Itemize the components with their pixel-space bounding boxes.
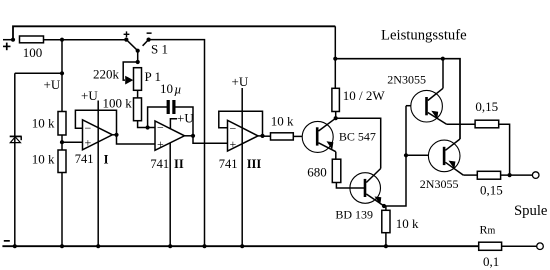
transistor Q1 BC547: [302, 118, 336, 152]
wire zener vertical: [14, 73, 16, 246]
svg-text:10 k: 10 k: [271, 114, 294, 129]
node +U top: [60, 38, 64, 42]
resistor 10k lower: [58, 150, 66, 173]
resistor 0,15 upper: [475, 120, 499, 128]
wire between divider: [61, 135, 63, 150]
minus terminal: [4, 240, 10, 242]
wire to Q4 base: [406, 154, 428, 156]
resistor 0,15 lower: [477, 171, 500, 179]
op-amp U1 feedback wire: [75, 110, 116, 135]
wire Q4 emitter to 0,15: [463, 174, 477, 176]
svg-text:+U: +U: [177, 110, 194, 125]
svg-text:680: 680: [307, 165, 327, 180]
svg-text:−: −: [230, 121, 237, 135]
wire 680 to BD139 base: [336, 183, 364, 189]
op-amp U3 feedback wire: [219, 111, 263, 136]
svg-text:10 / 2W: 10 / 2W: [343, 88, 386, 103]
svg-text:+: +: [230, 137, 237, 151]
svg-text:S 1: S 1: [151, 42, 168, 57]
op-amp U1 (741 I): [83, 120, 113, 150]
svg-text:10 k: 10 k: [32, 116, 55, 131]
svg-text:+: +: [85, 136, 92, 150]
resistor 100: [20, 36, 44, 43]
node rail zener: [13, 244, 17, 248]
wire riser down: [61, 40, 63, 112]
wire riser to top rail: [13, 26, 335, 39]
terminal Spule bottom: [537, 243, 544, 250]
switch S1: [124, 31, 168, 62]
wire Q3 collector to rail: [442, 59, 444, 89]
node op-amp I output: [112, 134, 116, 136]
node rail 10k: [60, 244, 64, 248]
svg-text:741: 741: [150, 157, 169, 171]
wire opI out to opII +: [117, 135, 156, 144]
node op-amp III output: [258, 135, 263, 137]
wire op-amp I supply: [97, 101, 99, 247]
node Q3 base branch: [404, 153, 408, 157]
node rail op II: [168, 244, 172, 248]
zener diode: [10, 136, 22, 142]
node rail S1: [202, 244, 206, 248]
wire 100 to S1: [44, 39, 127, 41]
svg-text:220k: 220k: [93, 66, 120, 81]
resistor 10/2W: [332, 88, 340, 111]
wire to output node: [501, 174, 533, 176]
wire cap left: [148, 107, 167, 128]
transistor Q2 BD139: [350, 169, 384, 207]
node supply split: [333, 57, 337, 61]
wire op-amp III supply: [241, 88, 243, 246]
transistor Q4 2N3055 lower: [428, 139, 463, 175]
wiper arrow P1: [125, 76, 133, 85]
node S1 common: [136, 60, 140, 64]
capacitor C1 10u: [167, 100, 176, 114]
resistor Rm 0,1: [479, 242, 502, 250]
wire to 10k: [263, 135, 271, 137]
svg-text:+U: +U: [232, 74, 249, 89]
svg-text:BC 547: BC 547: [339, 130, 376, 144]
node divider mid: [60, 140, 64, 144]
svg-text:741: 741: [75, 152, 94, 166]
svg-text:Leistungsstufe: Leistungsstufe: [381, 27, 467, 43]
potentiometer P1 220k: [134, 68, 142, 91]
node rail op III: [240, 244, 244, 248]
terminal Spule top: [532, 172, 539, 179]
wire 10k to rail: [61, 173, 63, 247]
svg-text:0,15: 0,15: [475, 99, 498, 114]
wire input stub: [3, 39, 13, 41]
label +U op-amp II: [170, 119, 177, 130]
wire S1 minus to right and down: [149, 40, 205, 247]
wire 0,15 to output: [499, 124, 510, 175]
node A (input junction): [11, 38, 15, 42]
wire 10k emitter resistor: [385, 206, 387, 210]
op-amp U2 (741 II): [155, 121, 185, 150]
wire op-amp II supply down: [169, 143, 171, 246]
node op-amp II minus: [146, 125, 150, 129]
wire 10k to rail: [385, 233, 387, 247]
svg-text:100 k: 100 k: [103, 96, 133, 111]
node output junction: [508, 173, 512, 177]
svg-text:10 k: 10 k: [396, 216, 419, 231]
wire bottom rail: [2, 245, 478, 247]
transistor Q3 2N3055 upper: [411, 88, 447, 124]
node rail op I: [96, 244, 100, 248]
node BD139 emitter: [382, 204, 386, 208]
wire top rail turn down: [334, 26, 336, 88]
resistor 100k: [134, 98, 142, 121]
wire cap right: [176, 107, 194, 136]
svg-text:+U: +U: [44, 77, 61, 92]
svg-text:−: −: [157, 120, 164, 134]
wire right rail: [335, 59, 460, 139]
svg-text:2N3055: 2N3055: [387, 72, 426, 86]
node op-amp II output: [185, 135, 194, 137]
svg-text:10 k: 10 k: [32, 152, 55, 167]
wire collector node to BD139 collector: [336, 118, 381, 168]
svg-text:II: II: [174, 157, 184, 171]
wire Q3 emitter to 0,15: [447, 123, 476, 125]
wire P1 to 100k: [137, 90, 139, 98]
wire wiper loop: [123, 62, 138, 80]
wire Rm to terminal: [502, 245, 537, 247]
svg-text:P 1: P 1: [145, 69, 162, 84]
wire to op-amp I + input: [62, 141, 83, 143]
svg-text:−: −: [85, 121, 92, 135]
wire 10/2W to collector node: [335, 112, 337, 119]
node BC547 collector: [334, 116, 338, 120]
node rail Q3: [441, 57, 445, 61]
resistor 10k base: [271, 133, 294, 140]
wire opII out to opIII +: [193, 136, 228, 144]
svg-text:0,15: 0,15: [480, 183, 503, 198]
svg-text:2N3055: 2N3055: [420, 177, 459, 191]
svg-text:I: I: [104, 153, 109, 167]
svg-text:Rm: Rm: [480, 223, 496, 237]
resistor 680: [332, 159, 341, 182]
node zener branch: [60, 71, 64, 75]
svg-text:+: +: [157, 137, 164, 151]
+ terminal: [3, 43, 11, 51]
wire emitter to 680: [335, 152, 337, 160]
wire 100k to op-amp II -: [138, 121, 155, 128]
svg-text:BD 139: BD 139: [335, 207, 373, 221]
svg-text:+U: +U: [81, 88, 98, 103]
wire emitter junction: [384, 106, 406, 206]
svg-text:10: 10: [160, 81, 173, 96]
wire to Q3 base: [406, 105, 411, 107]
svg-text:III: III: [247, 157, 262, 171]
resistor 10k upper: [58, 112, 66, 136]
resistor 10k bottom: [382, 210, 390, 232]
wire 10k to BC547 base: [293, 135, 302, 137]
svg-text:741: 741: [219, 157, 238, 171]
wire branch to zener: [15, 72, 62, 74]
node rail 10k emitter: [384, 244, 388, 248]
svg-text:100: 100: [23, 45, 43, 60]
svg-text:Spule: Spule: [514, 203, 548, 219]
svg-text:0,1: 0,1: [483, 254, 499, 269]
op-amp U3 (741 III): [228, 120, 259, 151]
svg-text:µ: µ: [174, 82, 181, 96]
